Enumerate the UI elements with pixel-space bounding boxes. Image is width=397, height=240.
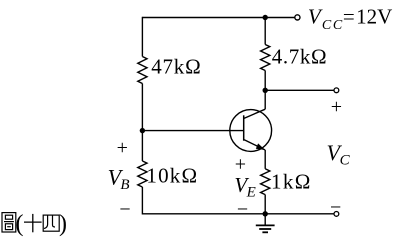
svg-text:+: + <box>117 137 128 159</box>
svg-text:+: + <box>331 96 342 118</box>
ground stub <box>264 214 266 226</box>
svg-text:−: − <box>119 199 130 221</box>
label VCC = 12V <box>308 5 392 33</box>
resistor R3 4.7k <box>261 45 270 71</box>
transistor Q1 base bar <box>243 115 245 140</box>
wire emitter bottom <box>264 195 266 214</box>
wire collector branch to node <box>264 71 266 110</box>
node collector C <box>263 88 268 93</box>
resistor R4 1k <box>261 169 270 195</box>
transistor Q1 emitter lead <box>244 140 266 151</box>
svg-text:CC: CC <box>322 18 344 33</box>
svg-text:(: ( <box>16 211 24 237</box>
wire left rail top <box>141 17 143 57</box>
svg-text:B: B <box>120 177 129 193</box>
svg-text:+: + <box>235 153 246 175</box>
wire base <box>142 130 243 132</box>
terminal emitter output open circle <box>334 212 339 217</box>
resistor R2 10k <box>138 161 147 187</box>
node base junction B <box>140 128 145 133</box>
label VE <box>234 173 255 200</box>
svg-text:=: = <box>343 5 355 29</box>
wire top rail VCC <box>142 17 265 19</box>
wire emitter <box>264 150 266 169</box>
transistor Q1 emitter arrow <box>256 143 265 150</box>
terminal VCC open circle <box>295 15 300 20</box>
svg-text:1kΩ: 1kΩ <box>271 169 312 193</box>
caption glyph shi <box>24 214 42 232</box>
caption figure 14 glyph tu <box>2 213 16 232</box>
wire left rail bottom <box>141 187 143 215</box>
label VC <box>327 140 351 169</box>
svg-text:47kΩ: 47kΩ <box>151 55 201 79</box>
ground bars <box>256 225 275 232</box>
svg-text:10kΩ: 10kΩ <box>146 164 198 188</box>
svg-text:4.7kΩ: 4.7kΩ <box>272 44 327 68</box>
wire collector tap <box>265 89 334 91</box>
svg-text:): ) <box>59 211 67 237</box>
label VB <box>108 165 130 194</box>
wire bottom rail <box>142 213 334 215</box>
transistor Q1 circle <box>230 110 272 152</box>
node emitter ground junction <box>263 211 268 216</box>
svg-text:12V: 12V <box>356 5 392 29</box>
wire left rail middle <box>141 84 143 162</box>
svg-text:−: − <box>237 198 248 220</box>
svg-text:V: V <box>308 5 323 29</box>
svg-text:C: C <box>340 152 351 168</box>
wire VCC terminal stub <box>265 17 294 19</box>
caption glyph si <box>43 215 59 231</box>
resistor R1 47k <box>138 57 147 84</box>
wire collector branch top <box>264 18 266 45</box>
terminal VC plus open circle <box>334 88 339 93</box>
node VCC junction <box>263 15 268 20</box>
transistor Q1 collector lead <box>244 109 266 118</box>
